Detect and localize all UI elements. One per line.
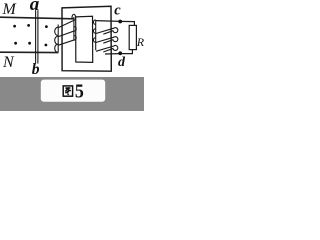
wire resistor bottom to d bbox=[105, 50, 132, 54]
turn 1 loop bbox=[96, 28, 118, 35]
right rail bbox=[73, 17, 75, 40]
node d bbox=[118, 51, 122, 55]
wire secondary top to c and R bbox=[96, 21, 135, 26]
svg-text:R: R bbox=[136, 35, 144, 49]
background bbox=[0, 0, 144, 111]
turn 2 loop bbox=[96, 37, 118, 44]
wire rail M (top conductor) bbox=[0, 17, 74, 19]
big left arcs bbox=[55, 27, 59, 36]
caption white pill bbox=[41, 80, 105, 102]
conductor rod ab (double line) bbox=[36, 10, 38, 63]
secondary winding (right) bbox=[93, 20, 117, 52]
resistor R bbox=[129, 25, 136, 49]
node c bbox=[118, 20, 122, 24]
primary winding (left) bbox=[55, 14, 77, 52]
caption gray band bbox=[0, 77, 144, 111]
top hook bbox=[72, 14, 76, 19]
small left bumps bbox=[93, 20, 95, 25]
transformer core inner window bbox=[76, 16, 93, 62]
svg-text:5: 5 bbox=[75, 81, 84, 103]
caption text 图 (drawn) bbox=[63, 86, 72, 96]
wire rail N (bottom conductor) bbox=[0, 51, 58, 53]
svg-text:N: N bbox=[2, 54, 15, 71]
field dots row 2 bbox=[14, 42, 47, 47]
left rail bbox=[95, 21, 97, 51]
field dots row 1 bbox=[13, 24, 48, 28]
left rail bbox=[57, 25, 59, 53]
svg-text:M: M bbox=[2, 1, 18, 18]
right bumps bbox=[74, 27, 76, 32]
svg-text:d: d bbox=[118, 55, 126, 70]
diagonals bbox=[58, 20, 75, 28]
svg-text:c: c bbox=[114, 3, 121, 19]
turn 3 loop bbox=[96, 45, 118, 52]
transformer core outer rectangle bbox=[62, 6, 111, 71]
